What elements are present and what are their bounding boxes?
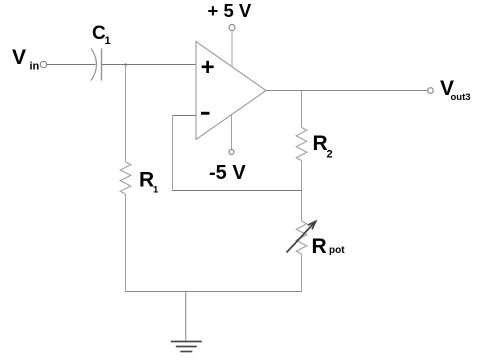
wire R1 to bottom rail	[125, 194, 127, 292]
resistor R1	[120, 162, 131, 194]
capacitor C1	[91, 49, 102, 81]
wire +5V to op-amp	[231, 31, 233, 67]
wire op-amp - input	[173, 115, 197, 117]
svg-text:2: 2	[327, 149, 333, 161]
op-amp - input marking	[201, 112, 210, 115]
wire feedback left vertical	[172, 116, 174, 191]
node Vin label	[12, 46, 40, 73]
svg-text:R: R	[139, 169, 154, 192]
node Vout3 label	[440, 77, 471, 103]
wire op-amp to -5V terminal	[231, 114, 233, 149]
svg-text:out3: out3	[451, 92, 471, 103]
wire feedback horizontal to R2 bottom node	[173, 190, 303, 192]
-5V supply terminal	[229, 150, 234, 155]
wire bottom rail	[125, 291, 302, 293]
op-amp U1	[196, 42, 266, 140]
label R2	[313, 132, 333, 161]
svg-text:+ 5 V: + 5 V	[208, 0, 252, 21]
wire Rpot to bottom rail	[301, 254, 303, 292]
svg-text:pot: pot	[329, 245, 345, 256]
wire R2 to feedback node	[301, 161, 303, 222]
node junction at top of R1 branch	[125, 64, 127, 66]
output terminal Vout3	[428, 88, 434, 94]
label R1	[139, 169, 159, 196]
wire Vin to C1	[47, 64, 96, 66]
input terminal Vin	[40, 61, 46, 67]
svg-text:1: 1	[105, 35, 111, 47]
svg-text:V: V	[12, 46, 26, 69]
wire junction down to R1	[125, 65, 127, 163]
label C1	[92, 23, 111, 47]
wire C1 to op-amp + input	[102, 64, 197, 66]
resistor R2	[296, 128, 307, 161]
svg-text:+: +	[201, 54, 215, 81]
svg-text:-5 V: -5 V	[209, 162, 246, 184]
svg-text:in: in	[30, 61, 40, 73]
svg-text:1: 1	[153, 185, 159, 196]
ground	[171, 342, 202, 352]
svg-text:R: R	[313, 132, 328, 155]
wire op-amp output to Vout3	[266, 90, 428, 92]
label Rpot	[312, 235, 346, 258]
wire output junction down to R2	[301, 91, 303, 128]
svg-text:R: R	[312, 235, 327, 258]
potentiometer Rpot	[287, 221, 316, 254]
+5V supply terminal	[229, 25, 235, 31]
ground stem wire	[185, 292, 187, 342]
